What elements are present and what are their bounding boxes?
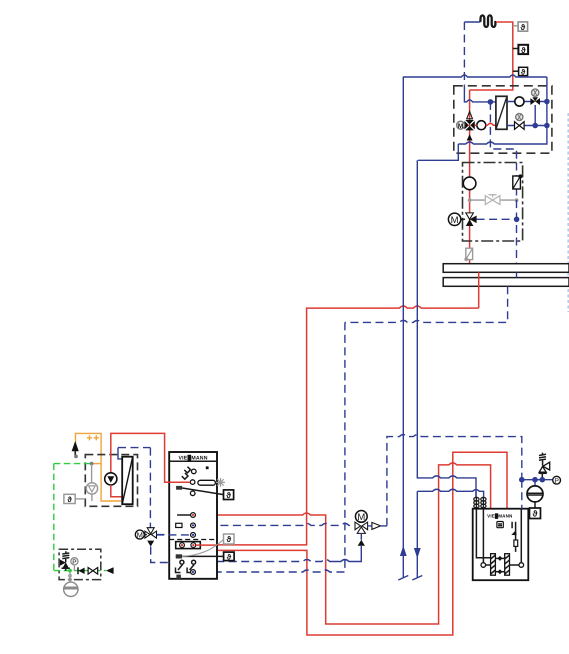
expansion vessel <box>64 582 78 596</box>
relay contact marks <box>182 467 191 480</box>
connection coil right <box>481 497 486 509</box>
node gray <box>74 455 78 459</box>
terminal lead <box>177 514 191 516</box>
wire: blue drop to HX <box>118 448 122 459</box>
wire: blue dashed below manifold <box>345 286 508 322</box>
vessel connection <box>69 573 71 583</box>
svg-text:VIE█MANN: VIE█MANN <box>487 513 513 520</box>
direction arrow black up <box>72 441 79 451</box>
node safety <box>540 477 546 483</box>
safety valve boiler <box>539 453 550 477</box>
safety relief valve <box>60 551 70 570</box>
sensor box outdoor (gray) <box>518 22 528 32</box>
wire: blue dashed valve bypass up-over <box>387 435 522 526</box>
strip circle 2 <box>191 543 196 548</box>
terminal block small <box>176 523 182 527</box>
wire: gray bypass <box>470 199 517 201</box>
boiler cabinet <box>473 509 529 581</box>
dash stub between bars <box>516 272 518 277</box>
orange plus marks <box>87 435 99 440</box>
wire: red pump to HX <box>111 485 122 497</box>
sensor tick <box>513 70 519 72</box>
burner assembly lines <box>512 522 516 534</box>
wire: blue boiler return header <box>417 489 483 497</box>
wire: orange stub <box>92 463 102 465</box>
fresh water module enclosure <box>454 86 552 153</box>
3-way valve with motor (heat pump) <box>135 528 156 540</box>
sensor tick gray <box>513 25 518 27</box>
svg-text:ϑ: ϑ <box>226 491 231 500</box>
igniter arrow <box>511 530 516 535</box>
wire: red from coil to sensor rail <box>470 22 513 90</box>
shut-off valve bowtie <box>88 568 98 575</box>
left circle port <box>481 563 486 568</box>
pump group enclosure dash-dot <box>463 163 523 242</box>
wire: red control to boiler circuit B (outer U) <box>182 452 507 635</box>
node junction <box>519 477 525 483</box>
riser break tick <box>412 576 422 581</box>
wire: blue dashed from junction into boiler <box>521 480 523 509</box>
3-way mixing valve with motor <box>448 213 476 226</box>
pump brine (gray) <box>86 483 97 494</box>
terminal circle <box>190 491 195 496</box>
internal down pipes <box>476 509 490 563</box>
flow arrow filled left <box>106 567 114 574</box>
heat pump enclosure dashes <box>85 455 137 507</box>
terminal strip box <box>176 542 201 549</box>
gas valve rect <box>514 540 518 546</box>
bottom square <box>176 575 181 579</box>
svg-text:ϑ: ϑ <box>521 46 526 55</box>
heat exchanger condenser <box>122 457 133 505</box>
terminal circle with red <box>190 480 195 485</box>
wire: red return from manifold <box>478 272 480 308</box>
wire: blue riser up (solid) <box>402 77 404 578</box>
3-way valve open with motor <box>355 511 368 534</box>
wire: blue secondary top <box>507 101 547 103</box>
right circle port <box>519 563 524 568</box>
wire: green through safety group <box>54 570 106 572</box>
display icon <box>497 522 503 528</box>
sensor box return (black) <box>224 552 235 561</box>
svg-text:M: M <box>451 215 459 226</box>
wire: blue riser down lower part <box>416 491 418 577</box>
shut-off valve gray above manifold <box>464 248 472 261</box>
wire: blue dashed from junction down and to pump box <box>490 102 516 163</box>
svg-text:M: M <box>137 531 143 540</box>
wire: blue right leg <box>458 77 547 144</box>
wire: gray drop to pump <box>91 464 93 483</box>
wire: blue riser down (solid), upper part <box>417 160 476 497</box>
node blue <box>514 217 520 223</box>
pressure gauge P <box>71 558 78 571</box>
svg-text:ϑ: ϑ <box>67 495 72 504</box>
shut-off valve with handwheel <box>515 113 525 129</box>
balancing valve <box>513 174 523 189</box>
4-way mixing valve <box>464 120 474 130</box>
sensor box brine gray <box>64 494 85 504</box>
check valve open triangle above mixer <box>467 112 473 119</box>
flow arrow filled below mixer <box>467 134 473 140</box>
circulation pump <box>527 480 543 508</box>
supply manifold bar <box>443 264 569 273</box>
svg-text:ϑ: ϑ <box>520 23 525 32</box>
bypass valve gray <box>485 195 500 205</box>
sensor box gray <box>224 534 235 544</box>
sensor box DHW (black) <box>518 45 528 55</box>
node pump top <box>532 477 538 483</box>
wire: red from heat pump into unit <box>169 481 190 483</box>
terminal circle <box>192 469 197 474</box>
terminal circle blue <box>191 523 196 528</box>
pump primary <box>477 121 486 130</box>
hx bottom link with valve diamond <box>495 571 504 573</box>
wire: blue dashed from heat pump valve <box>156 534 191 536</box>
flow arrow up on riser <box>400 546 407 557</box>
config square <box>206 466 209 469</box>
wire: blue dashed drop from coil to fresh water module <box>463 22 465 86</box>
motor M on mixing valve (gray) <box>457 121 465 130</box>
actuator pill <box>198 480 216 485</box>
wire: blue supply to coil <box>464 21 480 23</box>
connector block 2 <box>176 554 182 558</box>
heat exchanger hatched 1 <box>491 554 496 576</box>
flow arrow open right <box>372 522 381 529</box>
wire: valve to bypass riser <box>367 525 387 527</box>
wire: blue valve bottom to control <box>335 546 362 562</box>
sensor lead <box>182 488 223 495</box>
terminal circle blue 2 <box>191 533 196 538</box>
sensor lead black <box>182 555 224 557</box>
flow arrow filled below valve <box>358 540 365 546</box>
wire: blue dashed center drop <box>217 322 345 572</box>
wire: red heat pump to control <box>111 433 169 482</box>
sensor box (black) <box>519 67 528 76</box>
sensor tick <box>513 48 519 50</box>
svg-text:ϑ: ϑ <box>521 67 526 76</box>
svg-text:M: M <box>357 512 365 523</box>
controller cabinet <box>169 452 217 579</box>
wire: red manifold return <box>196 544 217 546</box>
pressure sensor P <box>553 476 561 485</box>
sensor box flow (black) <box>224 490 234 500</box>
wire: red control to boiler circuit A (inner U) <box>196 463 491 624</box>
node gray bypass right <box>515 198 519 202</box>
wire: long blue header y=77 <box>403 75 547 77</box>
sensor box boiler <box>530 508 541 519</box>
pump circulation <box>463 177 476 190</box>
wire: blue dashed control to valve <box>195 523 355 525</box>
terminal circle red <box>191 513 196 518</box>
connector block <box>176 486 182 490</box>
flow arrow filled down <box>147 541 154 547</box>
return manifold bar <box>443 278 569 287</box>
svg-text:ϑ: ϑ <box>533 509 538 519</box>
strip circle 1 <box>180 543 185 548</box>
wire: blue inlet corner <box>464 86 496 102</box>
wire: blue dashed valve to riser <box>477 218 517 220</box>
heat exchanger plate <box>496 96 507 129</box>
valve drop to node <box>534 105 536 126</box>
safety group enclosure dash-dot <box>59 549 101 579</box>
switch contacts <box>176 560 196 572</box>
svg-text:P: P <box>554 478 559 485</box>
wire: green brine supply <box>54 463 92 465</box>
wire: blue dashed valve bottom to control <box>151 547 170 563</box>
riser break tick <box>398 576 408 581</box>
svg-text:M: M <box>458 123 463 130</box>
wire: blue dashed riser through box <box>516 163 518 264</box>
hx top link with valve diamond <box>495 557 504 559</box>
wire: red mixer-pump-HX <box>475 123 496 125</box>
node gray on green <box>90 462 94 466</box>
node gray bypass left <box>468 198 472 202</box>
node: junction blue <box>488 99 494 105</box>
wire: green left drop <box>53 464 55 571</box>
svg-text:P: P <box>72 559 76 566</box>
pump secondary <box>515 97 524 106</box>
internal dashed divider <box>169 539 217 541</box>
heat exchanger hatched 2 <box>505 554 510 576</box>
svg-text:ϑ: ϑ <box>226 535 231 544</box>
wire: blue pump header <box>522 479 553 481</box>
light blue dashed right edge line <box>567 113 569 312</box>
node green <box>68 569 72 573</box>
wire: red drop through module <box>469 90 471 264</box>
wire: gray below pump <box>91 494 93 501</box>
node junctions bottom row <box>532 123 538 129</box>
sensor lead gray curve <box>182 540 224 557</box>
terminal circle blue 3 <box>191 570 196 575</box>
flow arrow down <box>414 548 421 559</box>
heating coil (DHW tank coil) <box>480 15 496 27</box>
3-way valve motorized (filled) <box>530 89 540 105</box>
check valve <box>78 567 85 574</box>
wire: blue dashed valve right to control <box>157 534 170 536</box>
connection coil left <box>474 497 479 509</box>
wire: orange solar loop <box>76 433 122 501</box>
pump heating (black) <box>105 473 117 485</box>
wire: red manifold to control unit <box>217 306 479 545</box>
node junction right top <box>544 99 550 105</box>
svg-text:ϑ: ϑ <box>227 553 232 562</box>
VIESSMANN logo band <box>169 460 217 462</box>
wire: blue secondary bottom row <box>507 125 547 127</box>
radio symbol gray <box>216 478 225 487</box>
wire: blue dashed condenser line <box>118 448 150 528</box>
svg-text:VIE█MANN: VIE█MANN <box>178 455 207 462</box>
